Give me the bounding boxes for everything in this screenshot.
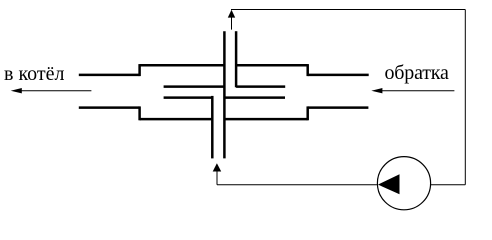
label "в котёл"	[4, 63, 64, 86]
right pipe bottom wall (обратка)	[308, 106, 369, 109]
inner wall C left	[164, 85, 225, 88]
right pipe top wall (обратка)	[308, 74, 369, 77]
pump loop right line	[464, 10, 466, 185]
right arrow shaft (обратка)	[380, 90, 454, 92]
separator body bottom edge (left of bottom pipe gap)	[140, 118, 213, 121]
separator body top edge (left of top pipe gap)	[140, 64, 225, 67]
pump impeller triangle	[378, 174, 400, 194]
left step top	[138, 64, 141, 76]
pump circle	[377, 157, 430, 210]
left arrowhead (left)	[11, 88, 22, 93]
separator body top edge (right of top pipe gap)	[236, 64, 308, 67]
top arrow shaft	[231, 17, 233, 30]
right arrowhead (left)	[371, 88, 382, 93]
separator body bottom edge (right of bottom pipe gap)	[224, 118, 307, 121]
inner wall D right	[224, 96, 285, 99]
pump loop bottom-right line	[431, 184, 466, 186]
pump loop top line	[231, 9, 465, 11]
inner wall C right	[236, 85, 285, 88]
bottom arrow shaft	[216, 171, 218, 185]
right step top	[306, 64, 309, 76]
bottom arrowhead (up)	[213, 163, 222, 171]
top arrowhead (up)	[228, 10, 235, 18]
left step bottom	[138, 106, 141, 120]
left arrow shaft (в котёл)	[19, 90, 91, 92]
left pipe bottom wall (в котёл)	[79, 106, 140, 109]
inner wall D left	[164, 96, 213, 99]
pump loop bottom-left line	[217, 184, 377, 186]
vertical pipe shared wall V1	[223, 31, 226, 158]
right step bottom	[306, 106, 309, 120]
bottom pipe left wall V3	[211, 96, 214, 158]
top pipe right wall V2	[235, 31, 238, 87]
left pipe top wall (в котёл)	[79, 74, 140, 77]
label "обратка"	[385, 62, 449, 85]
